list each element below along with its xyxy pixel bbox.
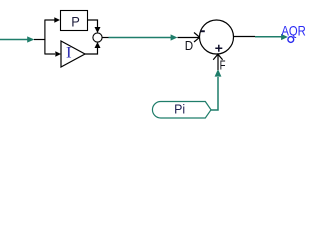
svg-text:D: D: [185, 38, 193, 53]
wire junction to summer (teal): [109, 37, 172, 39]
wire branch to I: [45, 53, 55, 55]
teal arrowhead mid wire: [171, 34, 178, 40]
wire summer output teal: [255, 36, 282, 38]
arrowhead into P: [54, 17, 60, 22]
output port circle AQR: [288, 37, 294, 43]
svg-text:P: P: [71, 14, 80, 30]
svg-text:AQR: AQR: [281, 22, 306, 38]
open arrowhead at summer bottom: [213, 54, 222, 60]
block I (gain triangle): [61, 41, 85, 67]
wire branch to P: [45, 19, 55, 21]
svg-text:Pi: Pi: [174, 102, 185, 117]
svg-text:F: F: [220, 58, 226, 73]
from tag Pi: [152, 102, 211, 119]
wire Pi to F corner: [211, 77, 218, 110]
arrowhead into junction top: [95, 27, 101, 33]
wire summer output black: [234, 36, 256, 38]
summer circle U1: [200, 20, 234, 54]
teal arrowhead upward on F wire: [215, 69, 222, 77]
wire input arrowhead: [27, 36, 34, 42]
wire P output: [87, 20, 98, 28]
arrowhead into junction bottom: [95, 42, 101, 48]
wire black into summer bottom: [217, 55, 219, 70]
wire input from left (teal): [0, 39, 28, 41]
open arrowhead at summer left: [194, 33, 200, 43]
teal arrowhead at output port: [281, 34, 288, 40]
svg-text:I: I: [66, 45, 72, 62]
wire branch vertical: [44, 20, 46, 55]
minus sign: [201, 30, 205, 32]
plus sign: [215, 45, 222, 52]
wire black into summer: [178, 37, 200, 39]
block P: [61, 11, 88, 31]
wire I output: [85, 47, 98, 54]
arrowhead into I: [55, 51, 61, 56]
wire junction to summer (black lead): [102, 37, 109, 39]
wire input black continuation: [34, 39, 46, 41]
junction circle (P+I merge): [93, 33, 102, 42]
